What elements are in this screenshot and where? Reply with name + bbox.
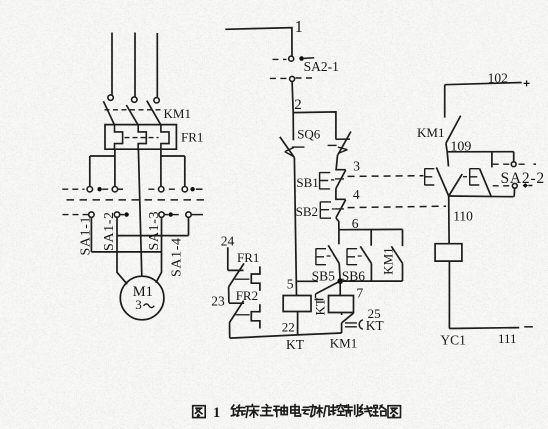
svg-text:111: 111 <box>498 331 517 346</box>
svg-text:3: 3 <box>135 297 142 312</box>
svg-text:KM1: KM1 <box>417 125 444 140</box>
svg-text:1: 1 <box>295 17 303 36</box>
svg-text:KM1: KM1 <box>330 335 357 350</box>
svg-text:KT: KT <box>312 298 327 315</box>
svg-text:FR2: FR2 <box>236 288 258 303</box>
svg-text:SB1: SB1 <box>296 175 318 190</box>
svg-text:110: 110 <box>453 209 473 224</box>
svg-text:23: 23 <box>211 294 225 309</box>
svg-text:SA2-1: SA2-1 <box>304 59 339 74</box>
svg-text:YC1: YC1 <box>440 332 466 347</box>
svg-text:1: 1 <box>213 405 220 421</box>
svg-text:SB2: SB2 <box>296 204 318 219</box>
svg-text:3: 3 <box>353 159 360 174</box>
svg-text:SA2-2: SA2-2 <box>501 170 545 187</box>
svg-text:22: 22 <box>282 319 295 334</box>
svg-text:5: 5 <box>287 276 294 291</box>
svg-text:KM1: KM1 <box>164 106 191 121</box>
svg-text:SA1-2: SA1-2 <box>102 211 117 251</box>
svg-text:102: 102 <box>488 71 508 86</box>
svg-text:KT: KT <box>286 337 305 352</box>
svg-text:4: 4 <box>353 187 360 202</box>
svg-text:SQ6: SQ6 <box>297 127 321 142</box>
svg-text:FR1: FR1 <box>181 130 203 145</box>
svg-text:7: 7 <box>357 286 364 301</box>
svg-text:2: 2 <box>294 97 302 113</box>
svg-text:KT: KT <box>366 318 385 333</box>
svg-text:SA1-1: SA1-1 <box>78 216 93 256</box>
svg-text:SA1-4: SA1-4 <box>169 237 184 277</box>
svg-text:FR1: FR1 <box>237 250 259 265</box>
svg-text:24: 24 <box>221 234 235 249</box>
svg-text:KM1: KM1 <box>381 247 396 274</box>
svg-text:109: 109 <box>450 139 471 154</box>
svg-text:SA1-3: SA1-3 <box>147 211 162 251</box>
svg-text:6: 6 <box>352 216 359 231</box>
